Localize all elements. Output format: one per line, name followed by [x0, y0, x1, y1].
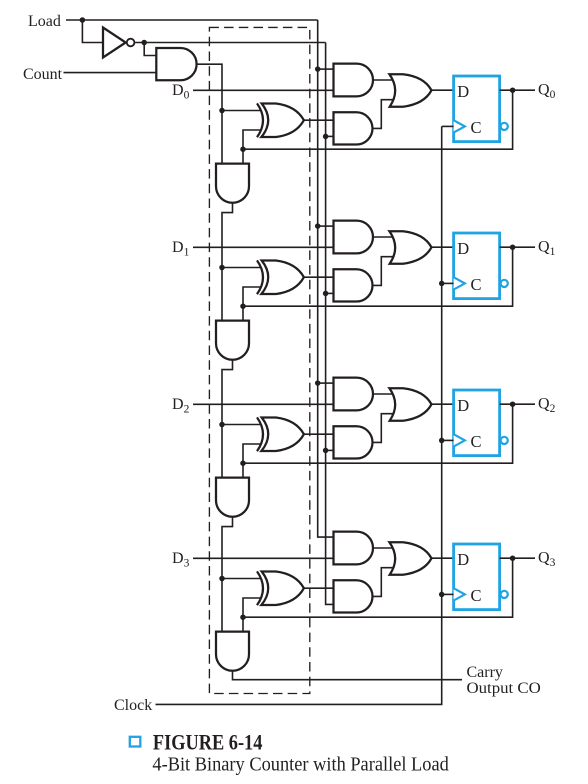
wire carry tap to XOR stage 1	[222, 267, 261, 269]
AND gate carry-chain stage 0	[216, 164, 249, 203]
D flip-flop FF3	[454, 544, 500, 610]
wire Q1 output	[500, 246, 535, 248]
wire Q1 feedback	[243, 247, 513, 306]
node Q3 feedback junction	[240, 614, 246, 620]
wire carry chain stage 0 to stage 1	[222, 203, 233, 321]
wire XOR output to AND stage 3	[304, 587, 334, 589]
AND gate carry-chain stage 2	[216, 478, 249, 517]
AND gate carry-chain stage 1	[216, 321, 249, 360]
wire clock to C input stage 3	[442, 593, 454, 595]
caption marker square	[130, 737, 141, 747]
complement output bubble FF1	[501, 280, 508, 287]
wire load tap to AND gate stage 2	[318, 382, 334, 384]
wire D2 input line	[193, 403, 334, 405]
wire Q feedback to XOR input stage 3	[243, 598, 261, 617]
node Q0 feedback junction	[240, 146, 246, 152]
dashed boundary box of count/load logic	[209, 27, 309, 693]
wire XOR output to AND stage 0	[304, 119, 334, 121]
wire Q feedback to XOR input stage 1	[243, 287, 261, 306]
node carry chain tap stage 1	[219, 265, 225, 271]
wire OR output to flip-flop D stage 1	[432, 246, 454, 248]
wire inverter output branch to count AND gate	[144, 43, 156, 56]
wire clock to C input stage 2	[442, 439, 454, 441]
AND gate G1 (Count enable)	[156, 48, 196, 80]
wire AND to OR top stage 3	[373, 547, 393, 549]
node carry chain tap stage 2	[219, 422, 225, 428]
svg-text:Count: Count	[23, 66, 63, 83]
wire count AND to OR bottom stage 2	[373, 414, 394, 443]
wire carry tap to XOR stage 2	[222, 424, 261, 426]
svg-text:Load: Load	[28, 13, 61, 30]
wire feedback down to chain AND stage 3	[242, 617, 244, 631]
wire load bus vertical	[318, 20, 334, 537]
wire Q3 feedback	[243, 558, 513, 617]
svg-text:D: D	[457, 82, 469, 101]
svg-text:Q1: Q1	[538, 239, 556, 259]
XOR gate stage 1	[257, 260, 263, 294]
svg-text:D: D	[457, 550, 469, 569]
AND gate load-path stage 0	[334, 64, 374, 97]
wire count AND to OR bottom stage 1	[373, 257, 394, 286]
complement output bubble FF3	[501, 591, 508, 598]
node carry chain tap stage 3	[219, 576, 225, 582]
node inverter output junction	[141, 40, 147, 46]
OR gate stage 2	[389, 388, 431, 421]
node Q2 feedback junction	[240, 460, 246, 466]
D flip-flop FF1	[454, 233, 500, 299]
wire Count input	[64, 72, 157, 74]
wire count AND output to carry chain	[197, 64, 222, 164]
complement output bubble FF2	[501, 437, 508, 444]
node clock riser junction stage 2	[439, 438, 445, 444]
node load-complement bus tap stage 0	[323, 134, 329, 140]
node Q3 output junction	[510, 555, 516, 561]
complement output bubble FF0	[501, 123, 508, 130]
svg-text:D2: D2	[172, 396, 190, 416]
wire XOR output to AND stage 2	[304, 433, 334, 435]
wire load-complement tap to AND stage 0	[326, 135, 334, 137]
node load-complement bus tap stage 1	[323, 291, 329, 297]
D flip-flop FF2	[454, 390, 500, 456]
inverter U1 (Load complement)	[103, 28, 126, 58]
wire Q0 output	[500, 89, 535, 91]
node Q1 feedback junction	[240, 303, 246, 309]
wire carry chain stage 2 to stage 3	[222, 517, 233, 632]
svg-text:D: D	[457, 396, 469, 415]
svg-text:D1: D1	[172, 239, 190, 258]
svg-text:D0: D0	[172, 82, 190, 102]
svg-text:Q3: Q3	[538, 550, 556, 570]
node clock riser junction stage 1	[439, 281, 445, 287]
svg-text:C: C	[471, 118, 482, 137]
wire Q0 feedback	[243, 90, 513, 149]
AND gate load-path stage 1	[334, 221, 373, 254]
wire feedback down to chain AND stage 1	[242, 306, 244, 320]
wire load tap to AND gate stage 1	[318, 225, 334, 227]
wire AND to OR top stage 1	[373, 236, 393, 238]
wire feedback down to chain AND stage 2	[242, 463, 244, 477]
node Load branch junction	[80, 17, 86, 23]
wire AND to OR top stage 0	[373, 79, 393, 81]
node load bus tap stage 2	[315, 380, 321, 386]
AND gate load-path stage 3	[334, 532, 374, 565]
wire Q2 feedback	[243, 404, 513, 463]
wire clock to C input stage 0	[442, 125, 454, 127]
wire count AND to OR bottom stage 0	[373, 100, 394, 129]
wire XOR output to AND stage 1	[304, 276, 334, 278]
OR gate stage 0	[389, 74, 431, 107]
wire inverter output to load-complement bus	[135, 42, 326, 44]
wire carry chain stage 1 to stage 2	[222, 360, 233, 478]
XOR gate stage 0	[257, 103, 263, 137]
node clock riser junction stage 3	[439, 592, 445, 598]
svg-text:C: C	[471, 275, 482, 294]
wire D0 input line	[193, 89, 334, 91]
AND gate count-path stage 2	[334, 426, 373, 458]
wire feedback down to chain AND stage 0	[242, 149, 244, 163]
wire OR output to flip-flop D stage 3	[432, 557, 454, 559]
wire load tap to AND gate stage 0	[318, 68, 334, 70]
wire Q feedback to XOR input stage 0	[243, 130, 261, 149]
AND gate carry-chain stage 3	[216, 632, 249, 671]
svg-text:FIGURE 6-14: FIGURE 6-14	[153, 729, 263, 754]
D flip-flop FF0	[454, 76, 500, 142]
wire D1 input line	[193, 246, 334, 248]
wire clock riser	[156, 126, 442, 704]
svg-text:Output CO: Output CO	[467, 680, 541, 697]
node Q0 output junction	[510, 87, 516, 93]
wire AND to OR top stage 2	[373, 393, 393, 395]
svg-text:C: C	[471, 586, 482, 605]
wire count AND to OR bottom stage 3	[373, 568, 394, 597]
wire carry tap to XOR stage 3	[222, 578, 261, 580]
AND gate load-path stage 2	[334, 378, 374, 411]
wire carry tap to XOR stage 0	[222, 110, 261, 112]
wire Q3 output	[500, 557, 535, 559]
AND gate count-path stage 3	[334, 580, 373, 612]
wire Load input to load bus	[66, 19, 318, 21]
node Q2 output junction	[510, 401, 516, 407]
OR gate stage 1	[389, 231, 431, 264]
wire load-complement tap to AND stage 2	[326, 449, 334, 451]
OR gate stage 3	[389, 542, 431, 575]
node load bus tap stage 1	[315, 223, 321, 229]
node carry chain tap stage 0	[219, 108, 225, 114]
wire Q feedback to XOR input stage 2	[243, 444, 261, 463]
AND gate count-path stage 0	[334, 112, 373, 144]
AND gate count-path stage 1	[334, 269, 373, 301]
wire OR output to flip-flop D stage 2	[432, 403, 454, 405]
wire load-complement bus vertical	[326, 43, 334, 605]
node load bus tap stage 0	[315, 66, 321, 72]
wire load-complement tap to AND stage 1	[326, 292, 334, 294]
svg-text:Clock: Clock	[114, 697, 152, 714]
wire OR output to flip-flop D stage 0	[432, 89, 454, 91]
svg-text:Q0: Q0	[538, 82, 556, 102]
wire Q2 output	[500, 403, 535, 405]
node load-complement bus tap stage 2	[323, 448, 329, 454]
wire Load branch down to inverter	[82, 20, 103, 43]
wire carry output CO	[233, 671, 463, 680]
XOR gate stage 2	[257, 417, 263, 451]
svg-text:Carry: Carry	[467, 664, 503, 681]
svg-text:C: C	[471, 432, 482, 451]
svg-text:D: D	[457, 239, 469, 258]
svg-text:D3: D3	[172, 550, 190, 570]
svg-text:4-Bit Binary Counter with Para: 4-Bit Binary Counter with Parallel Load	[152, 754, 448, 776]
svg-text:Q2: Q2	[538, 396, 556, 416]
wire clock to C input stage 1	[442, 282, 454, 284]
wire D3 input line	[193, 557, 334, 559]
node Q1 output junction	[510, 244, 516, 250]
XOR gate stage 3	[257, 571, 263, 605]
